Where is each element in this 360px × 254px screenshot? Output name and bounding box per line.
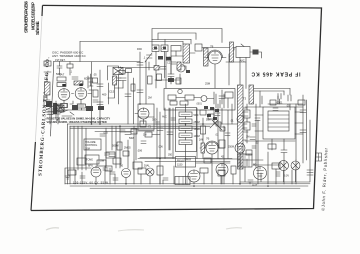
- crystal pad trimmer C6 (boxed X): [113, 68, 123, 75]
- capacitor C34: [113, 178, 118, 180]
- resistor R22: [56, 108, 64, 112]
- label: ANT terminal: [44, 61, 51, 66]
- antenna coil L1: [45, 82, 51, 95]
- border frame of schematic page: [31, 5, 322, 210]
- wire: T2 taps: [243, 112, 280, 165]
- wire: padder drop: [109, 75, 119, 105]
- resistor R35: [157, 166, 163, 175]
- capacitor C19: [109, 154, 115, 157]
- resistor R25: [268, 144, 276, 149]
- diode load box outline: [138, 104, 154, 130]
- resistor R13: [185, 95, 194, 100]
- resistor R47: [208, 114, 214, 119]
- svg-text:.1: .1: [70, 71, 73, 74]
- capacitor C44: [105, 153, 110, 155]
- resistor R31: [145, 132, 152, 137]
- svg-text:.015: .015: [103, 132, 108, 135]
- detector sub-chassis box: [164, 89, 235, 111]
- svg-text:ANT. TRIMMER 1400 KC: ANT. TRIMMER 1400 KC: [52, 54, 87, 58]
- resistor R24: [117, 142, 122, 150]
- third control run: [70, 127, 200, 129]
- svg-text:.01: .01: [215, 134, 219, 137]
- svg-text:DIAL: DIAL: [144, 164, 150, 168]
- resistor R6: [148, 76, 153, 84]
- svg-text:.05: .05: [93, 73, 97, 77]
- wire: V6 leads: [135, 114, 144, 125]
- dial lamp bracket: [133, 162, 142, 169]
- capacitor C47: [100, 134, 105, 136]
- wire: bottom ticks: [82, 160, 296, 184]
- capacitor C33: [80, 176, 85, 178]
- svg-text:SW: SW: [100, 159, 105, 163]
- AVC diode box: [236, 47, 250, 58]
- resistor stack R20: [179, 140, 192, 145]
- resistor R4: [119, 71, 125, 75]
- wire: heater bus 3: [90, 187, 300, 189]
- wire: IF leads: [156, 51, 195, 88]
- wire: antenna lead: [44, 72, 51, 100]
- resistor R10: [157, 74, 162, 81]
- tube V8 80 rectifier: [122, 169, 131, 178]
- svg-text:.006: .006: [137, 149, 143, 153]
- capacitor C28: [225, 133, 230, 136]
- svg-text:PAD: PAD: [137, 48, 142, 51]
- svg-text:42: 42: [221, 155, 225, 159]
- riser x=116: [115, 126, 117, 168]
- capacitor C13: [219, 96, 225, 99]
- coil L2 (osc grid): [74, 81, 83, 85]
- tube V1 6A7 1st det-osc: [58, 89, 70, 101]
- wire: riser x=133.5: [133, 78, 135, 124]
- capacitor C10: [137, 90, 143, 93]
- trimmer side box: [126, 69, 132, 73]
- resistor R45: [106, 152, 115, 158]
- grid ladder rungs: [89, 78, 93, 90]
- capacitor C46: [252, 146, 256, 148]
- svg-text:ANT: ANT: [45, 63, 50, 66]
- resistor R3 (cathode): [62, 104, 67, 108]
- band switch S1: [44, 103, 60, 109]
- wire: plate loop top: [152, 29, 222, 43]
- resistor R15: [244, 122, 250, 130]
- capacitor C23: [300, 130, 306, 133]
- svg-text:350: 350: [168, 154, 173, 157]
- resistor stack R19: [179, 133, 192, 138]
- tube V10: [216, 164, 228, 176]
- svg-text:.0001: .0001: [196, 104, 202, 106]
- grid cap shield (hatched): [230, 42, 234, 62]
- wire: y=126.2 run: [70, 125, 210, 127]
- resistor stack R17: [179, 119, 192, 124]
- wire: inside detector box: [176, 90, 222, 104]
- svg-text:50M: 50M: [56, 73, 61, 76]
- tube V11 rectifier 80: [254, 167, 267, 180]
- wire: mid risers: [106, 126, 134, 168]
- capacitor C15: [288, 95, 291, 101]
- V5 grid shield (hatched): [201, 143, 205, 153]
- capacitor C4: [97, 84, 103, 87]
- wire: IF links: [155, 56, 183, 80]
- wire: riser x=128: [127, 72, 129, 124]
- svg-text:10M: 10M: [85, 147, 90, 150]
- resistor R33: [270, 100, 276, 105]
- capacitor C18: [47, 112, 53, 115]
- IF transformer T1 primary trimmer box: [152, 45, 159, 52]
- IF transformer T1 secondary trimmer box: [161, 45, 168, 52]
- svg-text:400: 400: [102, 93, 107, 97]
- svg-text:2MEG: 2MEG: [124, 147, 131, 150]
- svg-text:500M: 500M: [112, 144, 119, 148]
- node: junction ticks: [72, 93, 92, 95]
- wire: V5 leads: [200, 148, 224, 165]
- wire: heater bus 2: [70, 185, 308, 187]
- svg-text:78: 78: [210, 45, 214, 49]
- svg-text:C15: C15: [109, 90, 115, 94]
- wire: bottom returns: [59, 101, 90, 110]
- capacitor C42: [103, 168, 108, 170]
- wire: det plate runs: [254, 89, 291, 92]
- svg-text:465: 465: [166, 57, 171, 60]
- capacitor C3: [77, 104, 84, 106]
- wire: stack riser: [185, 104, 187, 159]
- rectifier filter rect: [105, 166, 112, 171]
- svg-text:105-125V. 60 CY. 55 W.: 105-125V. 60 CY. 55 W.: [73, 181, 109, 185]
- V3 shield bar (hatched): [204, 48, 209, 66]
- resistor R32: [246, 150, 252, 155]
- slug marks upper: [204, 106, 219, 120]
- wire: AVC can drops: [226, 62, 246, 89]
- svg-text:50M: 50M: [129, 137, 134, 140]
- wire: x=166 drop: [165, 52, 167, 88]
- resistor R7: [171, 46, 181, 52]
- ground: output cathode: [65, 176, 70, 179]
- capacitor C26: [171, 62, 176, 64]
- resistor R14: [244, 110, 250, 118]
- wire: grid ticks: [60, 62, 71, 76]
- capacitor C5: [97, 102, 103, 105]
- capacitor C41: [276, 172, 280, 176]
- capacitor C11: [160, 67, 166, 70]
- wire: band links: [205, 159, 247, 184]
- wire: het bus: [120, 67, 160, 69]
- svg-text:6.3V: 6.3V: [284, 175, 289, 178]
- wire: control column risers: [74, 126, 82, 170]
- svg-text:2A6: 2A6: [199, 139, 204, 142]
- tone switch box S2: [85, 155, 99, 164]
- capacitor C40 stack: [307, 170, 313, 175]
- tick marks under padder: [115, 78, 121, 81]
- capacitor C16: [157, 128, 163, 131]
- capacitor C12: [168, 74, 174, 84]
- coil L5 IF secondary: [177, 64, 185, 72]
- pilot lamp P1: [146, 168, 154, 176]
- capacitor C17: [167, 132, 173, 135]
- svg-text:.006: .006: [158, 146, 163, 149]
- capacitor C14: [278, 94, 281, 105]
- capacitor C24: [57, 66, 62, 68]
- wire: left risers to bottom: [68, 124, 71, 184]
- margin part: boxed trimmer on border: [316, 153, 322, 161]
- det box right ticks: [216, 94, 228, 108]
- tube V3 78 IF amplifier: [209, 51, 222, 64]
- svg-text:TONE: TONE: [86, 159, 93, 162]
- output grid resistor pair: [77, 158, 86, 165]
- det box row 2: [170, 101, 177, 105]
- resistor R2: [57, 83, 66, 87]
- svg-text:.01: .01: [230, 119, 234, 123]
- coil L6: [201, 96, 207, 102]
- svg-text:SPKR: SPKR: [184, 158, 191, 162]
- wire: riser x=146: [145, 60, 147, 104]
- svg-text:T3: T3: [243, 97, 247, 101]
- resistor R5: [131, 84, 135, 91]
- svg-text:IF PEAK 465 KC: IF PEAK 465 KC: [251, 71, 300, 77]
- wire: x=100 drop: [99, 70, 101, 124]
- choke L7: [138, 168, 146, 174]
- wire: screen drop x=91.5: [91, 62, 93, 124]
- output transformer T5 inner ladder: [268, 111, 289, 131]
- resistor R44: [131, 129, 137, 134]
- capacitor C35: [163, 178, 168, 180]
- V5 shield arc: [205, 141, 219, 148]
- svg-text:L4: L4: [118, 66, 122, 70]
- wire: right margin risers: [303, 95, 307, 163]
- resistor R38: [231, 166, 236, 174]
- wire: speaker runs: [258, 120, 268, 168]
- resistor R41: [204, 158, 211, 163]
- capacitor C30: [250, 137, 255, 140]
- diode tube V4: [235, 143, 245, 153]
- tube V5 76 1st audio: [206, 142, 218, 154]
- coupling knot: [216, 122, 221, 126]
- wire: right feeds: [262, 96, 303, 104]
- resistor stack R18: [179, 126, 192, 131]
- trimmer arrow: [145, 53, 152, 70]
- wire: right feed riser: [240, 120, 310, 182]
- wire: top bus y=39.5: [152, 39, 191, 41]
- svg-text:80: 80: [120, 164, 124, 168]
- resistor R26: [298, 100, 305, 105]
- wire: osc returns: [108, 85, 123, 98]
- wire: grid bus y=61.5: [54, 61, 141, 63]
- svg-text:.02: .02: [255, 141, 259, 145]
- wire: right drops: [284, 89, 290, 96]
- resistor R12: [168, 95, 176, 100]
- wire: tile E risers: [214, 104, 232, 159]
- wire: bottom component drops: [75, 159, 284, 185]
- wire: x=171 drop: [170, 60, 172, 74]
- resistor R21: [201, 126, 206, 134]
- wire: osc section riser x=107.5: [107, 66, 109, 80]
- wire: AVC column: [240, 104, 247, 165]
- wire: drop at x=152: [151, 40, 153, 46]
- tube V9 output: [188, 170, 200, 182]
- capacitor C29: [141, 141, 146, 144]
- wire: audio runs: [138, 159, 232, 162]
- resistor R1: [57, 77, 66, 81]
- wave band switch row: [57, 105, 64, 111]
- svg-text:250M: 250M: [228, 146, 234, 149]
- capacitor C31: [255, 118, 260, 121]
- capacitor C20: [125, 132, 131, 135]
- wire: T5 leads: [245, 107, 303, 150]
- wire: IF knot links: [174, 66, 186, 84]
- svg-text:25M: 25M: [205, 82, 210, 86]
- diode load divider: [138, 116, 154, 118]
- capacitor C7 padder: [120, 78, 126, 88]
- terminal strip box: [175, 177, 190, 185]
- tube V3 shield arc: [208, 50, 223, 57]
- svg-text:350: 350: [152, 118, 157, 122]
- capacitor C43: [110, 172, 115, 174]
- capacitor C2: [72, 77, 78, 79]
- wire: audio run pair: [140, 158, 230, 164]
- wire: riser x=140: [139, 52, 141, 104]
- capacitor C1 (gang trimmer): [56, 104, 62, 112]
- wire: bottom feed y=168: [65, 168, 91, 184]
- svg-text:2M: 2M: [148, 96, 152, 100]
- capacitor C37: [155, 122, 160, 124]
- resistor R42: [113, 158, 121, 164]
- riser x=86: [85, 128, 87, 170]
- svg-text:76: 76: [206, 137, 210, 141]
- resistor R43: [123, 151, 129, 156]
- svg-text:1M: 1M: [246, 136, 249, 139]
- resistor R34: [68, 170, 76, 175]
- wave trap switch S3: [60, 110, 74, 116]
- trimmer slugs (dark): [154, 47, 190, 83]
- wire: feed to AVC box: [202, 48, 236, 51]
- svg-text:C22: C22: [167, 61, 172, 65]
- wire: drop at x=191: [190, 40, 192, 45]
- resistor R37: [218, 170, 225, 176]
- capacitor C45: [252, 124, 256, 126]
- resistor R40: [140, 121, 146, 127]
- wire: extra audio risers: [157, 108, 173, 159]
- wire: switch feeds: [44, 98, 58, 124]
- wire: cathode drops: [64, 99, 82, 110]
- pilot lamp P2: [279, 161, 289, 171]
- IF transformer T2 shield can (hatched tall): [238, 85, 244, 169]
- resistor R9 (hatched): [154, 66, 159, 71]
- wire: drop at x=183: [182, 42, 184, 45]
- wire: AVC leads: [240, 44, 262, 62]
- svg-text:STROMBERG PAGE 6-6: STROMBERG PAGE 6-6: [24, 0, 29, 33]
- svg-text:W1: W1: [56, 119, 60, 122]
- capacitor C22: [300, 110, 306, 113]
- wire: inner left border x=53.5: [51, 62, 54, 137]
- stack internal marks: [181, 115, 190, 143]
- svg-text:1150: 1150: [177, 164, 183, 167]
- resistor R46: [200, 110, 206, 115]
- ballast block: [238, 154, 252, 167]
- coil L3 osc (hatched): [113, 76, 117, 85]
- capacitor C36: [248, 180, 253, 182]
- detector box parts: [225, 92, 233, 98]
- wire: screen loop: [158, 33, 196, 40]
- svg-text:6F6: 6F6: [88, 164, 93, 168]
- svg-text:1W: 1W: [143, 134, 147, 137]
- capacitor C32: [273, 108, 278, 111]
- resistor R39: [272, 163, 280, 169]
- IF transformer T1 shield can (hatched): [183, 44, 190, 63]
- capacitor C27: [215, 113, 220, 116]
- resistor stack enclosure: [176, 108, 197, 152]
- riser x=136: [135, 128, 137, 160]
- wire: tone run: [95, 131, 133, 133]
- tube V7 42 output: [91, 167, 101, 177]
- smudge: scan artifact lower middle: [118, 230, 144, 231]
- smudge: scan artifact lower left: [46, 228, 59, 230]
- IF transformer T3 can (hatched): [249, 85, 254, 104]
- wire: tap: [108, 66, 119, 68]
- resistor stack R16: [179, 112, 192, 117]
- T2 can taps: [243, 108, 248, 140]
- wire: taps: [290, 104, 303, 123]
- resistor R27: [67, 64, 73, 68]
- coil tap on T2: [237, 116, 244, 123]
- volume control R23 block: [84, 139, 101, 150]
- wire: audio couplings: [138, 131, 160, 135]
- capacitor C8: [125, 94, 131, 97]
- wire: V3 plate/cathode: [205, 58, 226, 89]
- resistor R8: [195, 44, 202, 51]
- svg-text:AVC: AVC: [162, 116, 167, 119]
- output transformer T5 outer: [263, 107, 295, 139]
- wire: heater bus 1: [65, 183, 310, 185]
- wire: tile F risers: [256, 91, 296, 168]
- svg-text:50M: 50M: [206, 119, 211, 122]
- wire: B+ top bus y=41.5: [80, 41, 183, 43]
- resistor R11 (dark slug): [253, 50, 259, 55]
- pilot lamp P3: [291, 161, 300, 170]
- svg-text:50M: 50M: [194, 114, 199, 117]
- tube base boxes: [61, 104, 68, 108]
- svg-text:1ST.DET.: 1ST.DET.: [55, 59, 66, 62]
- switch wiper: [46, 106, 54, 113]
- capacitor C25: [93, 100, 98, 102]
- ground: antenna return: [45, 100, 51, 104]
- left cluster block: [46, 101, 57, 114]
- wire: drop x=229: [228, 54, 230, 85]
- resistor R29: [176, 78, 181, 84]
- resistor R30: [219, 140, 225, 148]
- IF coil slug (hatched): [177, 62, 181, 70]
- svg-text:75: 75: [148, 125, 152, 129]
- capacitor C48: [120, 130, 125, 132]
- capacitor C38: [171, 118, 176, 120]
- grid leak bars: [88, 74, 91, 88]
- resistor R28: [93, 90, 98, 97]
- row slugs (dark): [72, 105, 104, 111]
- capacitor C9: [137, 63, 143, 66]
- svg-text:6D6: 6D6: [84, 77, 90, 81]
- tube V6 AVC triode: [138, 108, 149, 119]
- svg-text:Schematic: Schematic: [35, 20, 40, 35]
- wire: drop at x=80: [79, 42, 81, 62]
- tube V1 grid bias parts: [160, 108, 224, 165]
- svg-text:.1: .1: [143, 56, 146, 60]
- wire: drop at x=165: [164, 40, 166, 46]
- resistor R36: [200, 168, 208, 173]
- junction dots: [91, 103, 269, 187]
- field coil box relabel: [176, 157, 196, 168]
- tube grid caps: [62, 84, 83, 87]
- capacitor C21: [281, 150, 287, 165]
- smudge: scan artifact lower right: [226, 228, 242, 229]
- wire: y=124 main run: [68, 123, 238, 125]
- tube V2 6D6 osc: [75, 88, 87, 100]
